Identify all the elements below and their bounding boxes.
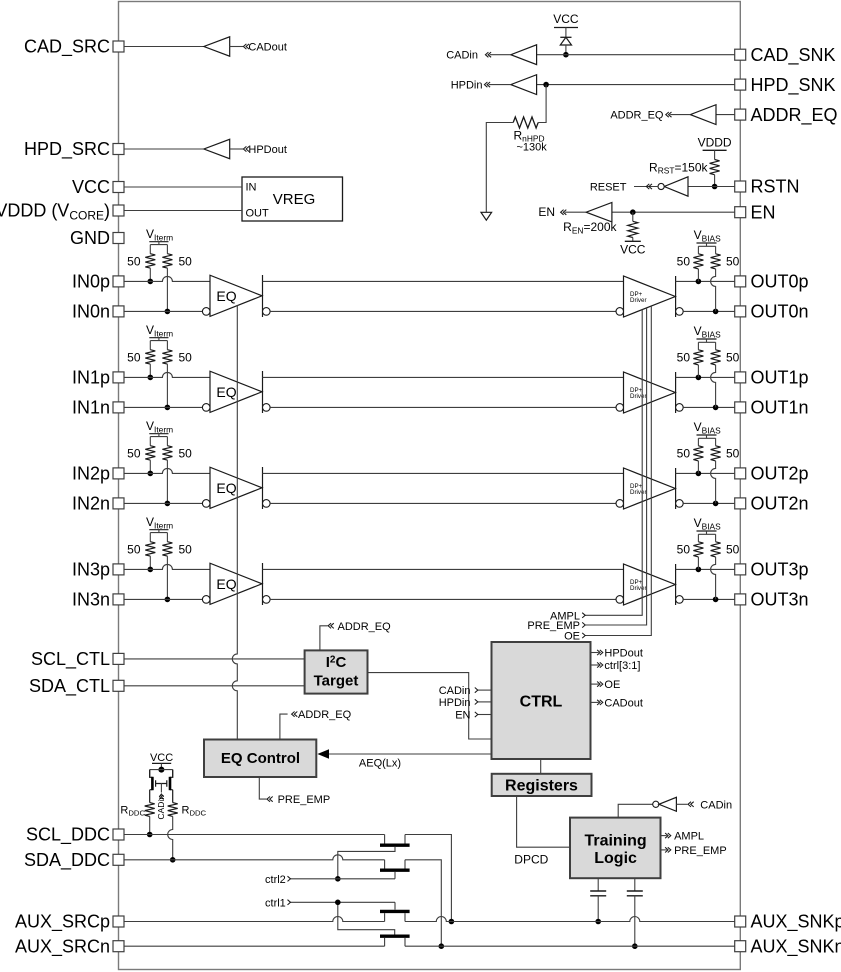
wire CADin into CTRL <box>478 689 492 691</box>
svg-text:VDDD: VDDD <box>698 136 732 150</box>
inverter RESET (points left) <box>664 177 688 196</box>
svg-text:HPDin: HPDin <box>451 80 483 92</box>
junction n/res ch1 <box>165 405 171 411</box>
svg-text:Registers: Registers <box>505 778 578 795</box>
arrow I2C ADDR_EQ <box>328 623 334 628</box>
arrow HPDout from CTRL <box>597 650 603 655</box>
wire IN0n to EQ <box>124 310 202 312</box>
wire TL to cap2 <box>634 878 636 891</box>
bubble driver3 n-input <box>616 596 624 604</box>
svg-text:AUX_SRCn: AUX_SRCn <box>15 936 110 957</box>
junction OUT2n/bias <box>713 501 719 507</box>
wire SCL_DDC <box>124 834 385 836</box>
svg-text:RRST=150k: RRST=150k <box>649 161 708 176</box>
pin SDA_CTL <box>113 680 124 691</box>
pin OUT1n <box>735 402 746 413</box>
junction HPD/RnHPD <box>543 82 549 88</box>
svg-text:IN1n: IN1n <box>72 398 110 418</box>
svg-text:CTRL: CTRL <box>520 694 563 711</box>
pin IN2p <box>113 468 124 479</box>
svg-text:AMPL: AMPL <box>674 831 704 843</box>
svg-text:OUT1p: OUT1p <box>751 368 809 388</box>
arrow CADout <box>243 44 249 49</box>
wire ADDR_EQ out <box>670 114 690 116</box>
wire IN0p to EQ <box>124 276 210 281</box>
wire EN <box>612 211 735 213</box>
wire VBIAS stub ch3 <box>698 531 715 542</box>
svg-text:OUT3n: OUT3n <box>751 590 809 610</box>
svg-text:EN: EN <box>751 202 776 222</box>
svg-text:HPDout: HPDout <box>248 144 287 156</box>
wire REN to VCC <box>632 238 634 242</box>
svg-text:50: 50 <box>127 351 141 365</box>
node driver2 output bar <box>675 468 677 509</box>
wire VDDD to VREG OUT <box>124 210 242 212</box>
block Registers <box>492 774 592 796</box>
wire AMPL from TL <box>661 835 667 837</box>
svg-text:ADDR_EQ: ADDR_EQ <box>751 105 838 126</box>
resistor RDDC right <box>168 803 178 817</box>
svg-text:50: 50 <box>179 255 193 269</box>
bubble driver2 n-output <box>676 500 684 508</box>
svg-text:IN1p: IN1p <box>72 368 110 388</box>
svg-text:50: 50 <box>179 543 193 557</box>
wire EQ3 p to driver <box>263 568 624 570</box>
svg-text:IN3p: IN3p <box>72 560 110 580</box>
resistor 50 ch1 in-right <box>162 350 172 364</box>
svg-text:REN=200k: REN=200k <box>563 220 617 235</box>
arrow PRE_EMP from TL <box>665 847 671 852</box>
svg-text:50: 50 <box>677 351 691 365</box>
svg-text:50: 50 <box>179 447 193 461</box>
svg-text:SCL_CTL: SCL_CTL <box>31 649 110 670</box>
wire in-left res to p ch3 <box>149 556 151 569</box>
svg-text:IN: IN <box>246 182 257 194</box>
eq-amp EQ2 <box>210 467 262 508</box>
svg-text:ADDR_EQ: ADDR_EQ <box>338 621 392 633</box>
wire out-right res to n ch3 <box>711 557 716 600</box>
arrow ctrl1 <box>288 900 291 905</box>
svg-text:IN2n: IN2n <box>72 494 110 514</box>
arrow ctrl2 <box>288 876 291 881</box>
wire I2C to CTRL <box>368 673 492 739</box>
pin OUT0n <box>735 306 746 317</box>
arrowhead AEQ <box>317 749 329 758</box>
resistor 50 ch0 in-left <box>145 254 155 268</box>
junction F1/AUX_SNKp <box>449 919 455 925</box>
wire IN2n to EQ <box>124 502 202 504</box>
resistor 50 ch3 in-right <box>162 542 172 556</box>
arrow HPDin <box>484 82 490 87</box>
eq-amp EQ0 <box>210 275 262 316</box>
svg-text:Target: Target <box>314 672 359 689</box>
wire HPD to RnHPD <box>538 85 546 123</box>
pin GND <box>113 233 124 244</box>
svg-text:VIterm: VIterm <box>146 227 173 242</box>
svg-text:50: 50 <box>726 543 740 557</box>
transistor F4 (AUX n) terminals <box>385 938 405 946</box>
pin HPD_SRC <box>113 144 124 155</box>
pin SDA_DDC <box>113 854 124 865</box>
eq-amp EQ3 <box>210 563 262 604</box>
block I2C Target <box>305 650 368 693</box>
wire out-left res to p ch3 <box>697 557 699 570</box>
wire CADin TL in <box>676 803 687 805</box>
block Training Logic <box>570 818 661 879</box>
svg-text:VDDD (VCORE): VDDD (VCORE) <box>0 201 110 223</box>
svg-text:AUX_SRCp: AUX_SRCp <box>15 912 110 933</box>
svg-text:HPD_SRC: HPD_SRC <box>24 139 110 160</box>
wire HPDin into CTRL <box>478 701 492 703</box>
svg-text:Training: Training <box>584 832 646 849</box>
node driver3 output bar <box>675 564 677 605</box>
junction p/res ch0 <box>148 279 154 285</box>
resistor 50 ch2 in-right <box>162 446 172 460</box>
wire DPCD <box>517 796 570 847</box>
bubble driver1 n-output <box>676 404 684 412</box>
svg-text:Driver: Driver <box>630 585 647 592</box>
transistor Q1 (left pullup) <box>150 770 162 803</box>
svg-text:IN3n: IN3n <box>72 590 110 610</box>
svg-text:Driver: Driver <box>630 393 647 400</box>
svg-text:VIterm: VIterm <box>146 323 173 338</box>
wire OUT2p <box>676 472 735 474</box>
svg-text:IN0p: IN0p <box>72 272 110 292</box>
svg-text:50: 50 <box>677 543 691 557</box>
svg-text:OUT2n: OUT2n <box>751 494 809 514</box>
junction cap2/AUX_SNKn <box>632 943 638 949</box>
pin CAD_SRC <box>113 41 124 52</box>
wire CADin gate stub <box>160 783 162 792</box>
svg-text:Driver: Driver <box>630 489 647 496</box>
wire OUT0n <box>683 310 735 312</box>
svg-text:EQ: EQ <box>216 480 236 496</box>
wire VIterm stub ch1 <box>150 338 167 350</box>
bubble driver1 n-input <box>616 404 624 412</box>
svg-text:50: 50 <box>127 543 141 557</box>
block EQ Control <box>204 740 316 778</box>
arrow OE <box>582 633 585 638</box>
wire in-left res to p ch1 <box>149 364 151 377</box>
wire OE vertical <box>585 306 651 635</box>
resistor 50 ch3 out-right <box>711 542 721 557</box>
pin VCC <box>113 182 124 193</box>
wire CADin out <box>490 54 511 56</box>
arrow EQControl PRE_EMP <box>267 797 273 802</box>
wire HPDout to pin <box>124 148 204 150</box>
svg-text:EQ: EQ <box>216 288 236 304</box>
wire VCC to pullup FETs <box>160 763 162 769</box>
pin SCL_DDC <box>113 829 124 840</box>
transistor F3 (AUX p) channel <box>380 910 410 913</box>
junction n/res ch2 <box>165 501 171 507</box>
arrow ADDR_EQ <box>666 112 672 117</box>
arrow EN into CTRL <box>475 712 478 717</box>
wire F1 gate <box>338 847 395 879</box>
svg-text:~130k: ~130k <box>517 142 548 154</box>
wire EQ-control vertical <box>232 305 237 739</box>
svg-text:CAD_SRC: CAD_SRC <box>24 37 110 58</box>
junction OUT0n/bias <box>713 309 719 315</box>
junction F1gate/ctrl2 <box>335 876 341 882</box>
node EQ1 output bar <box>262 371 264 413</box>
pin AUX_SNKn <box>735 941 746 952</box>
wire SDA_DDC <box>124 855 385 860</box>
wire IN1p to EQ <box>124 372 210 377</box>
wire IN2p to EQ <box>124 468 210 473</box>
svg-text:VBIAS: VBIAS <box>694 324 722 339</box>
svg-text:AEQ(Lx): AEQ(Lx) <box>359 757 401 769</box>
transistor F1 (SCL_DDC) channel <box>380 844 410 847</box>
junction diode/CAD_SNK <box>563 52 569 58</box>
svg-text:OUT1n: OUT1n <box>751 398 809 418</box>
arrow OE from CTRL <box>597 682 603 687</box>
wire EQ0 p to driver <box>263 280 624 282</box>
wire out-right res to n ch0 <box>711 269 716 312</box>
svg-text:HPD_SNK: HPD_SNK <box>751 75 836 96</box>
wire F2 gate <box>394 872 396 879</box>
svg-text:ctrl1: ctrl1 <box>265 897 286 909</box>
rail VBIAS underline ch3 <box>697 530 717 532</box>
wire TrainingLogic CADin <box>618 804 653 817</box>
pin IN1n <box>113 402 124 413</box>
svg-text:OUT0n: OUT0n <box>751 302 809 322</box>
rail VIterm underline ch3 <box>149 529 168 531</box>
svg-text:Logic: Logic <box>594 850 637 867</box>
wire OUT3n <box>683 598 735 600</box>
transistor F2 (SDA_DDC) terminals <box>385 860 405 869</box>
svg-text:50: 50 <box>726 351 740 365</box>
svg-text:AUX_SNKn: AUX_SNKn <box>751 936 841 957</box>
node driver0 output bar <box>675 276 677 317</box>
svg-text:CADin: CADin <box>439 685 471 697</box>
wire AUX n right <box>405 945 735 947</box>
rail VIterm underline ch0 <box>149 241 168 243</box>
wire EQ1 n to driver <box>270 406 616 408</box>
wire HPD_SNK <box>537 84 735 86</box>
bubble driver0 n-input <box>616 308 624 316</box>
wire OUT2n <box>683 502 735 504</box>
wire SCL_CTL <box>124 658 305 660</box>
pin OUT2n <box>735 498 746 509</box>
resistor RDDC left <box>145 803 155 817</box>
pin CAD_SNK <box>735 49 746 60</box>
wire VBIAS stub ch0 <box>698 243 715 254</box>
bubble driver2 n-input <box>616 500 624 508</box>
junction ctrl1 split <box>335 900 341 906</box>
wire out-left res to p ch2 <box>697 461 699 474</box>
svg-text:Driver: Driver <box>630 297 647 304</box>
junction n/res ch0 <box>165 309 171 315</box>
wire out-right res to n ch1 <box>711 365 716 408</box>
junction p/res ch2 <box>148 471 154 477</box>
wire in-right res to n ch0 <box>166 268 168 311</box>
arrow RESET <box>646 184 652 189</box>
pin AUX_SNKp <box>735 916 746 927</box>
wire AMPL vertical <box>585 310 642 616</box>
diode D1 <box>560 37 571 45</box>
svg-text:50: 50 <box>179 351 193 365</box>
inverter bubble (CADin TL) <box>653 801 659 807</box>
dp-driver U0 <box>624 276 676 317</box>
wire VCC to VREG IN <box>124 186 242 188</box>
arrow CADin TL <box>688 802 694 807</box>
arrow HPDout <box>243 146 249 151</box>
buffer EN (points left) <box>586 203 612 222</box>
wire OUT1n <box>683 406 735 408</box>
resistor RRST <box>710 160 720 175</box>
wire cap1 to AUX_SNKp <box>597 896 599 922</box>
arrow CADin <box>485 52 491 57</box>
bubble EQ2 n-input <box>202 500 210 508</box>
wire IN1n to EQ <box>124 406 202 408</box>
wire pullup tee <box>150 770 173 778</box>
svg-text:VBIAS: VBIAS <box>694 228 722 243</box>
junction RRST/RSTN <box>712 184 718 190</box>
arrow CADin into CTRL <box>475 688 478 693</box>
eq-amp EQ1 <box>210 371 262 412</box>
wire ctrl2 <box>291 878 396 880</box>
svg-text:EN: EN <box>455 710 470 722</box>
wire cap2 to AUX_SNKn <box>634 896 636 946</box>
svg-text:SCL_DDC: SCL_DDC <box>26 825 110 846</box>
svg-text:CADout: CADout <box>604 697 643 709</box>
svg-text:CADin: CADin <box>156 795 166 820</box>
wire F3 gate <box>394 902 396 909</box>
wire EQControl ADDR_EQ <box>280 714 288 739</box>
wire in-right res to n ch2 <box>166 460 168 503</box>
junction VCC pullup <box>158 767 164 773</box>
svg-text:50: 50 <box>677 447 691 461</box>
resistor 50 ch2 out-right <box>711 446 721 461</box>
svg-text:OE: OE <box>604 679 620 691</box>
pin OUT0p <box>735 276 746 287</box>
pin OUT1p <box>735 372 746 383</box>
dp-driver U1 <box>624 372 676 413</box>
svg-text:VBIAS: VBIAS <box>694 420 722 435</box>
junction OUT1n/bias <box>713 405 719 411</box>
resistor 50 ch1 in-left <box>145 350 155 364</box>
wire CTRL to Registers <box>540 759 542 774</box>
resistor 50 ch1 out-left <box>693 350 703 365</box>
wire EN to REN <box>632 212 634 221</box>
diode D1 cathode bar <box>560 36 571 38</box>
junction p/res ch1 <box>148 375 154 381</box>
transistor F1 (SCL_DDC) terminals <box>385 835 405 844</box>
svg-text:EQ Control: EQ Control <box>221 750 300 767</box>
rail VDDD underline <box>703 149 727 151</box>
svg-text:EQ: EQ <box>216 576 236 592</box>
pin SCL_CTL <box>113 653 124 664</box>
node EQ2 output bar <box>262 467 264 509</box>
wire OE from CTRL <box>591 683 599 685</box>
resistor 50 ch3 in-left <box>145 542 155 556</box>
svg-text:IN2p: IN2p <box>72 464 110 484</box>
pin IN1p <box>113 372 124 383</box>
svg-text:CADout: CADout <box>248 42 287 54</box>
svg-text:50: 50 <box>127 447 141 461</box>
wire EQ2 p to driver <box>263 472 624 474</box>
pin IN2n <box>113 498 124 509</box>
wire AUX_SRCp left <box>124 917 385 922</box>
wire EQ1 p to driver <box>263 376 624 378</box>
svg-text:ADDR_EQ: ADDR_EQ <box>298 709 352 721</box>
wire in-right res to n ch3 <box>166 556 168 599</box>
bubble driver0 n-output <box>676 308 684 316</box>
wire AUX p right <box>405 917 735 922</box>
pin OUT3n <box>735 594 746 605</box>
svg-text:GND: GND <box>70 228 110 248</box>
svg-text:HPDin: HPDin <box>439 697 471 709</box>
wire out-left res to p ch0 <box>697 269 699 282</box>
buffer CADout (points left) <box>204 37 230 56</box>
arrow CADout from CTRL <box>597 700 603 705</box>
wire in-right res to n ch1 <box>166 364 168 407</box>
bubble EQ3 n-output <box>263 596 271 604</box>
rail VCC underline <box>554 27 578 29</box>
buffer HPDout (points left) <box>204 139 230 158</box>
chip boundary <box>119 2 741 970</box>
svg-text:CADin: CADin <box>700 799 732 811</box>
junction F2/AUX_SNKn <box>439 943 445 949</box>
wire buffer input <box>230 46 243 48</box>
pin EN <box>735 207 746 218</box>
wire CAD_SNK <box>537 54 735 56</box>
wire in-left res to p ch0 <box>149 268 151 281</box>
svg-text:SDA_DDC: SDA_DDC <box>24 850 110 871</box>
wire F2 right to AUX_SNKn <box>405 860 441 946</box>
pin VDDD <box>113 205 124 216</box>
svg-text:ADDR_EQ: ADDR_EQ <box>610 110 664 122</box>
svg-text:IN0n: IN0n <box>72 302 110 322</box>
resistor 50 ch0 out-left <box>693 254 703 269</box>
resistor 50 ch2 in-left <box>145 446 155 460</box>
wire VBIAS stub ch1 <box>698 339 715 350</box>
wire RSTN <box>688 186 735 188</box>
junction p/res ch3 <box>148 567 154 573</box>
resistor 50 ch1 out-right <box>711 350 721 365</box>
pin OUT2p <box>735 468 746 479</box>
svg-text:50: 50 <box>726 447 740 461</box>
arrow PRE_EMP <box>582 622 585 627</box>
arrow ctrl[3:1] from CTRL <box>597 662 603 667</box>
svg-text:OUT2p: OUT2p <box>751 464 809 484</box>
node driver1 output bar <box>675 372 677 413</box>
svg-text:50: 50 <box>677 255 691 269</box>
wire RDDC left to SCL <box>149 816 151 834</box>
rail VCC (under REN) bar <box>625 240 641 242</box>
bubble EQ2 n-output <box>263 500 271 508</box>
junction OUT3p/bias <box>696 567 702 573</box>
ground <box>481 212 492 220</box>
wire VIterm stub ch3 <box>150 530 167 542</box>
capacitor C1 <box>590 891 606 896</box>
dp-driver U2 <box>624 468 676 509</box>
svg-text:RDDC: RDDC <box>182 804 207 817</box>
svg-text:50: 50 <box>726 255 740 269</box>
svg-text:OE: OE <box>564 631 580 643</box>
svg-text:OUT: OUT <box>246 208 270 220</box>
wire RDDC right to SDA <box>168 816 173 859</box>
rail VBIAS underline ch2 <box>697 434 717 436</box>
wire PRE_EMP vertical <box>585 308 647 625</box>
wire out-left res to p ch1 <box>697 365 699 378</box>
svg-text:OUT3p: OUT3p <box>751 560 809 580</box>
pin HPD_SNK <box>735 79 746 90</box>
resistor 50 ch0 out-right <box>711 254 721 269</box>
wire ctrl1 <box>291 901 396 903</box>
pin RSTN <box>735 181 746 192</box>
